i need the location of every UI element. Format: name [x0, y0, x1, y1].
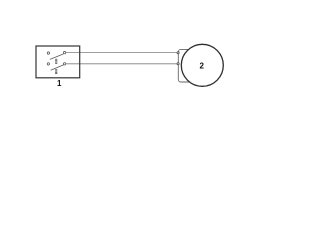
svg-text:1: 1: [57, 79, 62, 88]
svg-text:2: 2: [199, 61, 204, 70]
